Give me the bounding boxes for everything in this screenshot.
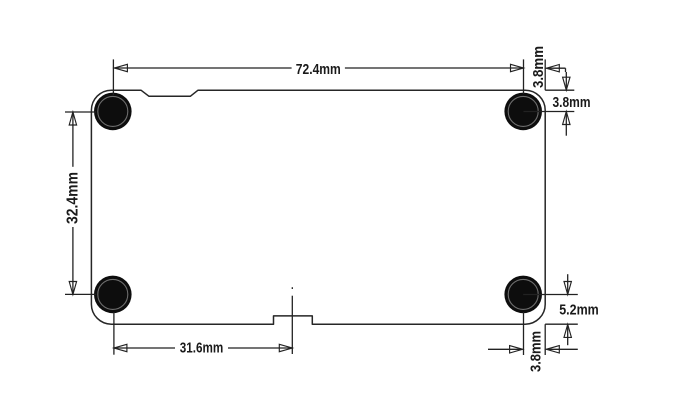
svg-text:3.8mm: 3.8mm <box>553 94 591 111</box>
svg-text:31.6mm: 31.6mm <box>180 340 224 357</box>
svg-text:3.8mm: 3.8mm <box>528 331 545 372</box>
svg-text:5.2mm: 5.2mm <box>559 302 599 319</box>
svg-text:3.8mm: 3.8mm <box>530 46 547 88</box>
svg-text:32.4mm: 32.4mm <box>65 172 82 224</box>
svg-text:72.4mm: 72.4mm <box>296 61 341 78</box>
